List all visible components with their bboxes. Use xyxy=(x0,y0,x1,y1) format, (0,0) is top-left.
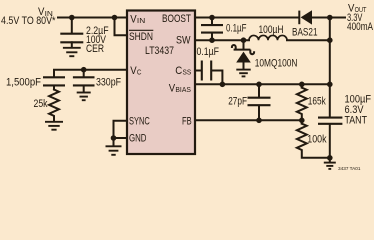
svg-text:C: C xyxy=(175,65,182,77)
svg-text:C: C xyxy=(137,69,142,76)
svg-text:BIAS: BIAS xyxy=(175,87,191,94)
svg-text:CER: CER xyxy=(86,43,104,55)
svg-text:25k: 25k xyxy=(34,98,48,110)
svg-text:0.1µF: 0.1µF xyxy=(226,23,247,35)
svg-text:100µH: 100µH xyxy=(259,24,284,36)
svg-text:3437 TA01: 3437 TA01 xyxy=(338,166,361,171)
svg-text:SS: SS xyxy=(183,69,192,76)
svg-text:BOOST: BOOST xyxy=(162,13,191,25)
svg-text:10MQ100N: 10MQ100N xyxy=(255,57,298,69)
svg-text:SHDN: SHDN xyxy=(129,31,153,43)
svg-text:LT3437: LT3437 xyxy=(145,45,174,57)
svg-text:IN: IN xyxy=(137,18,145,25)
svg-text:400mA: 400mA xyxy=(347,21,373,33)
svg-text:0.1µF: 0.1µF xyxy=(197,46,220,58)
svg-text:330pF: 330pF xyxy=(96,77,121,89)
svg-text:FB: FB xyxy=(182,115,192,127)
svg-text:4.5V TO 80V*: 4.5V TO 80V* xyxy=(1,15,56,27)
svg-text:100k: 100k xyxy=(307,133,327,145)
svg-text:165k: 165k xyxy=(308,95,326,107)
svg-text:SW: SW xyxy=(176,35,191,47)
svg-text:SYNC: SYNC xyxy=(129,116,150,128)
svg-text:TANT: TANT xyxy=(345,114,368,126)
svg-text:1,500pF: 1,500pF xyxy=(6,77,41,89)
svg-text:GND: GND xyxy=(129,133,147,145)
svg-text:BAS21: BAS21 xyxy=(292,26,318,38)
svg-text:27pF: 27pF xyxy=(228,96,247,108)
